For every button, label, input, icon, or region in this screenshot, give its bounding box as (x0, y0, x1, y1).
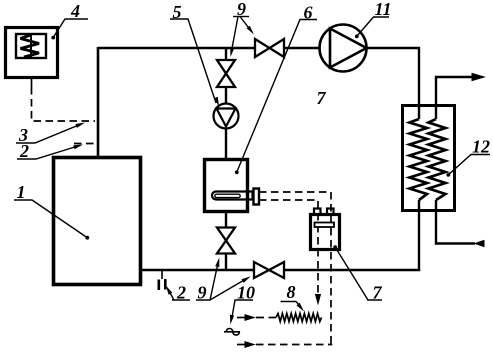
heater box 6 (205, 160, 248, 212)
dashed control line 3 from controller 4 to pipe (32, 87, 96, 121)
igniter unit 7 right prong (327, 209, 334, 215)
dashed wire: upper control line from capsule through igniter right prong (259, 192, 331, 346)
dashed sensor stub 2 on pipe (74, 143, 95, 145)
heat exchanger 12 right coil (429, 119, 446, 200)
wire: left vertical pipe to tank (97, 47, 100, 157)
heating element capsule in box 6 (212, 192, 253, 200)
wire: stub below controller 4 (31, 79, 33, 87)
wire: bottom pipe (142, 269, 254, 271)
heater coil 8 zigzag (276, 314, 322, 322)
svg-text:12: 12 (472, 137, 490, 157)
svg-text:1: 1 (17, 182, 26, 202)
controller 4 outer box (6, 28, 58, 78)
valve 9 lower vertical: top triangle (217, 228, 235, 241)
valve 9 top horizontal: left triangle (255, 39, 270, 57)
valve 9 upper vertical: bottom triangle (217, 74, 235, 88)
heat exchanger 12 box (403, 106, 455, 211)
valve 9 upper vertical: top triangle (217, 60, 235, 74)
signal arrow into heater coil 8 (237, 317, 246, 319)
wire: exchanger right pipe with top outlet arrow (436, 77, 473, 119)
pump 11 triangle (330, 29, 367, 68)
heating element inner slot (215, 194, 240, 197)
svg-text:2: 2 (19, 141, 29, 161)
capsule connector flange (254, 189, 260, 205)
valve 9 bottom horizontal: right triangle (269, 262, 284, 278)
igniter unit 7 left prong (314, 209, 321, 215)
heat exchanger 12 left coil (410, 119, 428, 200)
pump 5 triangle (217, 109, 236, 127)
svg-text:8: 8 (287, 282, 296, 302)
valve 9 lower vertical: bottom triangle (217, 241, 235, 254)
svg-text:4: 4 (70, 1, 80, 21)
arrow down at end of left dashed wire (315, 294, 321, 306)
svg-text:7: 7 (317, 88, 327, 108)
wire: center column pipe below box 6 (225, 213, 227, 228)
valve 9 top horizontal: right triangle (270, 39, 285, 57)
igniter unit 7 box (311, 215, 340, 250)
igniter unit 7 inner bar (315, 223, 335, 228)
svg-text:11: 11 (375, 0, 392, 19)
tank 1 (54, 158, 141, 285)
wire: top header pipe segments (98, 48, 419, 119)
pump 5 circle (214, 104, 239, 129)
controller 4 spring symbol (30, 35, 32, 59)
dashed wire: lower control line from capsule through igniter left prong (259, 200, 318, 294)
signal arrow bottom dashed wire (237, 344, 246, 346)
wire: exchanger left pipe lower (418, 200, 420, 271)
controller 4 inner box (16, 34, 46, 58)
wire: exchanger right pipe with bottom inlet arrow (436, 200, 475, 244)
sensor ticks 2 below bottom pipe (161, 271, 163, 279)
flame sensor symbol 10 (224, 331, 240, 333)
valve 9 bottom horizontal: left triangle (254, 262, 269, 278)
wire: center column pipe above box 6 (225, 48, 227, 60)
pump 11 circle (320, 25, 367, 72)
